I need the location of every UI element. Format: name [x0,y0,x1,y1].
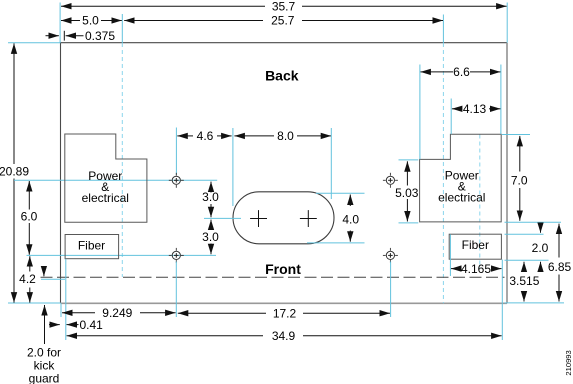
extension 6.6 right [500,65,502,135]
extension 4.13 left [450,99,452,135]
dimension 35.7 [61,0,507,13]
extension line x=5.0 plane solid [121,14,123,43]
svg-text:5.03: 5.03 [395,186,419,200]
dimension 6.6 [420,65,500,79]
right fiber box [449,234,501,259]
svg-text:6.85: 6.85 [548,260,572,274]
svg-text:electrical: electrical [438,191,485,205]
svg-text:35.7: 35.7 [272,0,296,13]
svg-text:Fiber: Fiber [462,238,489,252]
extension 8.0 right [330,128,332,199]
extension right row fiber top [505,233,544,235]
svg-text:20.89: 20.89 [0,164,29,178]
dimension 6.85 [548,224,572,302]
svg-text:3.515: 3.515 [509,274,539,288]
dimension 0.375 [46,29,116,43]
dimension 9.249 [62,306,176,320]
dimension 7.0 [511,136,528,221]
svg-text:3.0: 3.0 [202,230,219,244]
extension line left edge top [59,3,61,43]
svg-text:kick: kick [34,359,56,373]
dimension 8.0 [234,129,331,143]
svg-text:25.7: 25.7 [271,14,295,28]
obround cutout [233,192,334,244]
svg-text:0.375: 0.375 [85,29,115,43]
dimension 5.0 [61,14,122,28]
extension lower-right anchor column [390,262,392,318]
svg-text:4.6: 4.6 [197,129,214,143]
extension 7.0 top [502,134,530,136]
extension 4.0 top [316,192,365,194]
svg-text:6.6: 6.6 [453,65,470,79]
svg-text:5.0: 5.0 [82,14,99,28]
dimension 4.2 [19,256,36,302]
svg-text:6.0: 6.0 [21,210,38,224]
svg-text:210993: 210993 [564,350,573,375]
svg-text:electrical: electrical [82,191,129,205]
extension line x=25.7 plane dashed [442,43,444,303]
dimension 2.0 [532,224,549,271]
left fiber label [78,238,105,252]
svg-text:0.41: 0.41 [80,318,104,332]
extension fiber-left column below [65,259,67,340]
svg-text:2.0 for: 2.0 for [27,346,61,360]
extension 4.6/8.0 mid [232,128,234,206]
dimension 5.03 [395,161,419,221]
extension 5.03 top tick [399,159,419,161]
extension 4.0 bottom [307,242,365,244]
svg-text:4.0: 4.0 [342,213,359,227]
dimension 17.2 [178,306,390,320]
cyan obround centerline [204,217,241,219]
part number [564,350,573,375]
dimension 4.6 [177,129,231,143]
svg-text:Fiber: Fiber [78,238,105,252]
left fiber box [65,235,119,259]
obround cross mark left [250,210,267,227]
extension 4.6 left [175,128,177,175]
right power box [420,134,502,222]
svg-text:7.0: 7.0 [511,174,528,188]
kick guard pointer to front line [43,267,45,277]
svg-text:17.2: 17.2 [273,306,297,320]
dimension 25.7 [124,14,443,28]
extension 5.03 bottom tick [399,222,419,224]
cyan tick under front line [41,278,65,280]
svg-text:3.0: 3.0 [202,190,219,204]
obround cross mark right [300,210,317,227]
svg-text:4.2: 4.2 [19,272,36,286]
right fiber label [462,238,489,252]
anchor symbol lower-right [383,248,398,263]
extension dashed right fiber center [479,135,481,269]
dimension 4.165 [451,262,502,276]
dimension 20.89 [0,43,29,302]
left power box label [82,169,129,205]
main outline rectangle [61,43,508,304]
svg-text:9.249: 9.249 [102,306,132,320]
extension line x=5.0 plane dashed [121,43,123,277]
extension right row bottom edge [505,302,565,304]
cyan reference line upper row [14,179,217,181]
front dashed line [41,276,505,278]
svg-text:guard: guard [29,372,60,384]
left power box [65,134,147,222]
extension left edge below [60,303,62,317]
svg-text:4.13: 4.13 [463,102,487,116]
svg-text:2.0: 2.0 [532,241,549,255]
dimension 3.515 [509,262,539,302]
dimension 3.0 upper [202,182,219,218]
extension 6.6 left [419,65,421,160]
kick guard pointer to bottom edge [44,305,46,344]
svg-text:4.165: 4.165 [461,262,491,276]
extension right row P&E bottom [505,221,562,223]
dimension 4.13 [452,102,501,116]
anchor symbol lower-left [169,248,184,263]
right power box label [438,169,485,205]
extension 4.165/34.9 right [501,260,503,341]
dimension 3.0 lower [202,220,219,255]
extension line right edge top [506,3,508,43]
svg-text:Front: Front [265,261,301,277]
svg-text:Back: Back [265,67,299,83]
extension bottom-left horizontal [8,302,61,304]
dimension 34.9 [67,329,502,343]
extension right row fiber bottom [505,259,549,261]
extension 4.165 left [449,234,451,276]
cyan reference line lower row [27,254,217,256]
extension line x=25.7 plane solid [442,15,444,44]
dimension 4.0 [342,195,359,242]
svg-text:8.0: 8.0 [277,129,294,143]
kick guard label [27,346,61,384]
extension top-left horizontal [8,42,61,44]
extension lower-left anchor column [175,262,177,318]
anchor symbol upper-left [169,173,184,188]
label Front [265,261,301,277]
anchor symbol upper-right [383,173,398,188]
dimension 0.41 [49,318,103,332]
label Back [265,67,299,83]
svg-text:34.9: 34.9 [272,329,296,343]
dimension 6.0 [21,181,38,255]
